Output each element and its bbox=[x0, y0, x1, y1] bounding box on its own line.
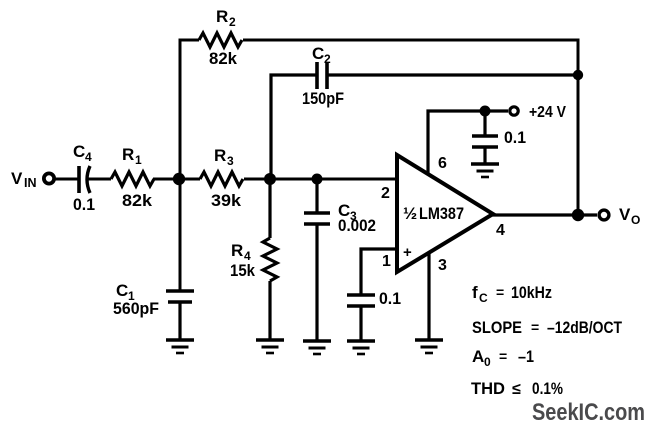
wire R1 to node A bbox=[153, 178, 200, 181]
svg-text:=: = bbox=[499, 348, 507, 364]
svg-text:R: R bbox=[216, 7, 228, 26]
svg-text:V: V bbox=[11, 169, 23, 188]
svg-text:O: O bbox=[631, 213, 640, 227]
svg-text:15k: 15k bbox=[230, 261, 255, 280]
svg-text:–1: –1 bbox=[518, 347, 534, 366]
svg-text:2: 2 bbox=[381, 185, 390, 202]
ground (C1) bbox=[166, 340, 194, 353]
label R3 bbox=[214, 146, 234, 168]
svg-text:R: R bbox=[122, 145, 134, 164]
label R1 bbox=[122, 145, 142, 167]
wire pin 1 branch bbox=[361, 249, 397, 295]
wire R4 to ground bbox=[268, 281, 271, 340]
svg-text:2: 2 bbox=[324, 52, 331, 66]
ground (R4) bbox=[256, 340, 284, 353]
ground (bypass) bbox=[471, 164, 499, 177]
wire pin 3 to ground bbox=[427, 253, 430, 340]
svg-text:150pF: 150pF bbox=[302, 89, 344, 108]
junction dot C2 right bbox=[573, 70, 583, 80]
node B junction dot (R4/C2 tap) bbox=[264, 173, 276, 185]
label R4 bbox=[231, 241, 251, 263]
svg-text:4: 4 bbox=[85, 150, 92, 164]
label VIN bbox=[11, 169, 37, 190]
svg-text:39k: 39k bbox=[211, 191, 242, 210]
svg-text:IN: IN bbox=[24, 176, 37, 190]
op-amp U1 triangle bbox=[397, 155, 493, 272]
svg-text:=: = bbox=[531, 319, 539, 335]
svg-text:½: ½ bbox=[403, 204, 417, 223]
wire output bbox=[491, 213, 597, 216]
svg-text:f: f bbox=[472, 283, 478, 302]
resistor R3 bbox=[200, 172, 243, 186]
svg-text:0.1%: 0.1% bbox=[532, 379, 563, 398]
resistor R4 bbox=[263, 238, 277, 281]
node C junction dot (C3 tap) bbox=[312, 174, 323, 185]
svg-text:+24 V: +24 V bbox=[529, 104, 566, 121]
wire C3 down bbox=[315, 179, 318, 213]
svg-text:3: 3 bbox=[438, 257, 447, 274]
svg-text:C: C bbox=[312, 44, 324, 63]
annotation THD <= 0.1% bbox=[471, 379, 563, 398]
svg-text:V: V bbox=[619, 205, 631, 224]
capacitor C4 bbox=[79, 166, 90, 193]
svg-text:=: = bbox=[496, 284, 504, 300]
+24V terminal bbox=[510, 107, 518, 115]
label C2 bbox=[312, 44, 331, 66]
svg-text:0.1: 0.1 bbox=[73, 195, 95, 214]
wire left vertical node A up to top rail and down to C1 bbox=[180, 40, 199, 291]
svg-text:560pF: 560pF bbox=[113, 299, 159, 318]
output junction dot bbox=[572, 209, 584, 221]
svg-text:C: C bbox=[73, 142, 85, 161]
output terminal VO bbox=[599, 210, 609, 220]
svg-text:THD: THD bbox=[471, 379, 505, 398]
label C4 bbox=[73, 142, 92, 164]
svg-text:–12dB/OCT: –12dB/OCT bbox=[547, 318, 622, 337]
capacitor 0.1 bypass bbox=[472, 136, 498, 147]
svg-text:4: 4 bbox=[496, 222, 505, 239]
label C1 bbox=[116, 281, 135, 303]
wire pin1 cap to ground bbox=[359, 306, 362, 341]
svg-text:1: 1 bbox=[382, 253, 391, 270]
svg-text:A: A bbox=[472, 347, 484, 366]
resistor R2 bbox=[199, 33, 242, 47]
svg-text:0.1: 0.1 bbox=[379, 289, 401, 308]
svg-text:3: 3 bbox=[227, 154, 234, 168]
wire R4 down from node B bbox=[268, 179, 271, 238]
junction dot bypass tap bbox=[480, 106, 491, 117]
wire C2 branch vertical and left segment bbox=[271, 75, 317, 179]
label C3 bbox=[338, 201, 357, 223]
svg-text:82k: 82k bbox=[209, 49, 238, 68]
capacitor 0.1 pin1 bbox=[347, 295, 375, 306]
resistor R1 bbox=[111, 172, 154, 186]
annotation SLOPE = -12dB/OCT bbox=[472, 318, 622, 337]
wire C2 to right vertical bbox=[327, 73, 578, 76]
svg-text:0.1: 0.1 bbox=[504, 128, 526, 147]
svg-text:0.002: 0.002 bbox=[338, 216, 376, 235]
wire C3 to ground bbox=[315, 224, 318, 341]
svg-text:+: + bbox=[403, 244, 412, 261]
wire bypass to ground bbox=[483, 147, 486, 164]
svg-text:2: 2 bbox=[229, 15, 236, 29]
wire top rail and right vertical to output bbox=[243, 40, 578, 215]
svg-text:R: R bbox=[214, 146, 226, 165]
annotation fc = 10kHz bbox=[472, 283, 552, 305]
svg-text:C: C bbox=[116, 281, 128, 300]
node A junction dot bbox=[173, 173, 185, 185]
wire C1 to ground bbox=[178, 302, 181, 340]
label VO bbox=[619, 205, 640, 227]
wire R3 to op-amp pin 2 bbox=[244, 178, 397, 181]
svg-text:82k: 82k bbox=[122, 191, 153, 210]
svg-text:1: 1 bbox=[135, 153, 142, 167]
wire input to C4 bbox=[55, 178, 79, 181]
svg-text:R: R bbox=[231, 241, 243, 260]
wire bypass tap down bbox=[483, 111, 486, 136]
ground (pin 3) bbox=[415, 340, 443, 353]
annotation Ao = -1 bbox=[472, 347, 534, 369]
ground (pin1 cap) bbox=[347, 341, 375, 354]
capacitor C2 bbox=[317, 62, 327, 89]
svg-text:SeekIC.com: SeekIC.com bbox=[532, 399, 645, 426]
svg-text:SLOPE: SLOPE bbox=[472, 318, 522, 337]
label R2 bbox=[216, 7, 236, 29]
svg-text:≤: ≤ bbox=[512, 381, 521, 398]
input terminal VIN bbox=[44, 173, 54, 183]
wire pin 6 to +24V bbox=[428, 111, 508, 174]
wire C4 to R1 bbox=[87, 178, 111, 181]
svg-text:LM387: LM387 bbox=[419, 204, 464, 223]
ground (C3) bbox=[303, 341, 331, 354]
svg-text:6: 6 bbox=[438, 155, 447, 172]
svg-text:0: 0 bbox=[484, 355, 491, 369]
capacitor C1 bbox=[166, 291, 194, 302]
capacitor C3 bbox=[304, 213, 330, 224]
svg-text:10kHz: 10kHz bbox=[511, 283, 552, 302]
svg-text:C: C bbox=[479, 291, 488, 305]
